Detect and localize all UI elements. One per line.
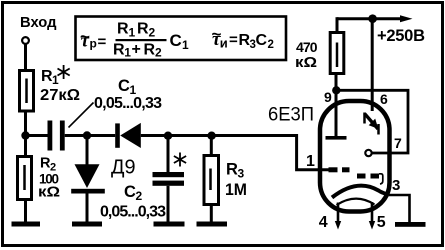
wire (pin 9 / anode) <box>335 74 338 137</box>
wire <box>86 140 89 165</box>
svg-text:C: C <box>170 31 182 50</box>
diode VD2 (vertical) <box>75 164 100 188</box>
svg-text:470: 470 <box>296 39 318 55</box>
wire (pin 6) <box>371 19 374 111</box>
heater lead pin 5 <box>371 202 374 222</box>
wire <box>141 134 297 137</box>
wire <box>24 200 27 222</box>
svg-text:Д9: Д9 <box>111 157 136 179</box>
svg-text:3: 3 <box>392 177 400 194</box>
node C (C2 branch) <box>164 132 172 140</box>
wire <box>86 194 89 222</box>
tube U1 envelope <box>320 101 390 212</box>
svg-text:2: 2 <box>268 39 274 51</box>
svg-text:1: 1 <box>306 153 315 170</box>
wire <box>65 134 116 137</box>
svg-text:2: 2 <box>149 26 156 40</box>
wire <box>24 112 27 136</box>
ground (C2) <box>154 222 185 227</box>
svg-text:0,05...0,33: 0,05...0,33 <box>94 95 162 112</box>
asterisk R1 <box>58 65 70 79</box>
svg-text:1: 1 <box>129 26 136 40</box>
anode bar pin 9 <box>326 136 347 140</box>
wire <box>210 205 213 222</box>
C1 pointer line <box>69 103 94 128</box>
grid dashes (pin 1) <box>329 167 338 172</box>
formula fraction bar <box>116 39 167 41</box>
svg-text:2: 2 <box>155 46 162 60</box>
svg-text:и: и <box>220 35 228 50</box>
svg-text:+: + <box>132 41 141 58</box>
svg-text:7: 7 <box>394 135 402 151</box>
target electrode pin 7 <box>365 150 371 156</box>
svg-text:C: C <box>124 183 136 201</box>
ground (R3) <box>197 222 228 227</box>
input terminal <box>22 37 29 44</box>
wire <box>26 134 48 137</box>
grid hook <box>379 174 383 184</box>
svg-text:R: R <box>113 42 125 59</box>
svg-text:1: 1 <box>182 38 189 52</box>
cathode (thick arc) <box>332 186 389 198</box>
heater lead pin 4 <box>337 203 340 223</box>
wire <box>210 140 213 155</box>
formula box <box>76 17 287 61</box>
ground (R2) <box>12 222 41 227</box>
svg-text:5: 5 <box>377 214 386 231</box>
svg-text:Вход: Вход <box>20 14 57 31</box>
ground (VD2) <box>72 222 102 227</box>
svg-text:1M: 1M <box>225 180 247 199</box>
svg-text:9: 9 <box>324 89 332 105</box>
svg-text:R: R <box>137 21 149 38</box>
ground (pin 3) <box>395 222 426 227</box>
wire (to tube pin 1) <box>297 134 330 170</box>
svg-text:6: 6 <box>380 91 388 107</box>
wire <box>167 140 170 173</box>
svg-text:=: = <box>229 32 238 49</box>
svg-text:2: 2 <box>136 189 143 203</box>
svg-text:τ: τ <box>81 31 90 52</box>
capacitor C2 <box>153 172 185 177</box>
svg-text:R: R <box>117 21 129 38</box>
capacitor C1 <box>48 121 53 151</box>
node B (diode branch) <box>83 131 91 139</box>
node E (+250V junction) <box>368 14 377 23</box>
svg-text:=: = <box>98 34 107 51</box>
wire <box>24 44 27 69</box>
wire (9 to 7 link) <box>336 90 408 153</box>
svg-text:кΩ: кΩ <box>295 55 317 71</box>
svg-text:кΩ: кΩ <box>38 185 60 201</box>
svg-text:3: 3 <box>238 167 245 181</box>
svg-text:6Е3П: 6Е3П <box>268 105 314 126</box>
svg-text:C: C <box>118 77 130 95</box>
svg-text:1: 1 <box>124 46 131 60</box>
supply rail +250V <box>337 17 401 20</box>
diode VD1 D9 (horizontal) <box>115 123 120 147</box>
svg-text:R: R <box>144 42 156 59</box>
node D (R3 branch) <box>207 132 215 140</box>
svg-text:R: R <box>226 161 238 179</box>
svg-text:0,05...0,33: 0,05...0,33 <box>100 204 166 221</box>
resistor R3 <box>204 156 219 205</box>
resistor R2 <box>18 157 32 200</box>
svg-text:4: 4 <box>319 214 328 231</box>
node F (pin9 junction) <box>332 86 340 94</box>
asterisk C2 <box>174 153 186 167</box>
wire <box>167 186 170 222</box>
deflection electrode (pin 6) <box>363 113 366 124</box>
wire (pin 3 to ground) <box>389 195 410 222</box>
svg-text:р: р <box>90 37 97 51</box>
svg-text:C: C <box>256 32 268 49</box>
heater arc <box>337 199 375 205</box>
svg-text:27кΩ: 27кΩ <box>40 87 80 104</box>
resistor R1 <box>20 71 34 112</box>
resistor R4 470k <box>330 33 344 74</box>
svg-text:+250В: +250В <box>377 27 425 45</box>
node A (R1/R2/C1 junction) <box>21 131 29 139</box>
